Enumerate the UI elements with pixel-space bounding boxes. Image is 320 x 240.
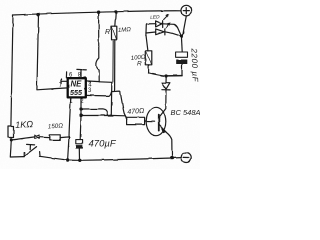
svg-text:470µF: 470µF	[89, 139, 117, 150]
svg-text:1KΩ: 1KΩ	[15, 119, 34, 130]
svg-text:BC 548A: BC 548A	[171, 108, 201, 117]
svg-text:2200 µF: 2200 µF	[189, 47, 199, 83]
svg-text:470Ω: 470Ω	[127, 108, 145, 116]
svg-text:150Ω: 150Ω	[48, 122, 64, 130]
svg-text:1MΩ: 1MΩ	[118, 27, 132, 34]
svg-text:R: R	[137, 61, 142, 68]
svg-text:R: R	[105, 29, 110, 36]
svg-text:LED: LED	[150, 14, 160, 21]
svg-text:555: 555	[70, 88, 83, 97]
